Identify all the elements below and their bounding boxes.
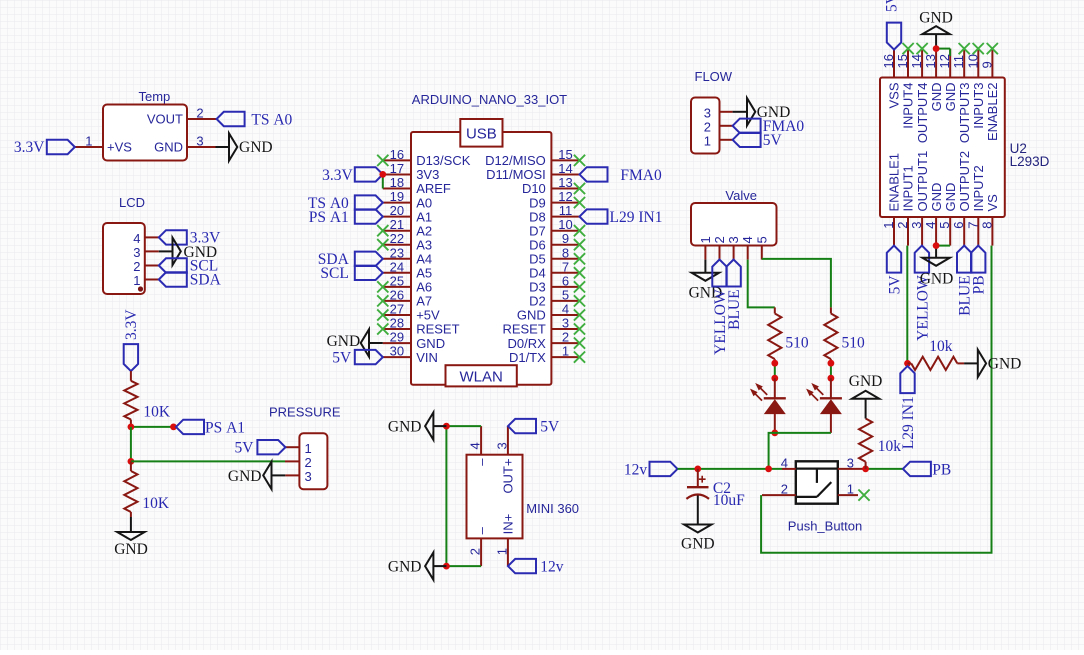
svg-text:GND: GND [943,83,958,112]
svg-text:1: 1 [881,222,896,229]
wire U2 GND bottom [936,245,950,247]
svg-text:D7: D7 [529,223,546,238]
svg-text:GND: GND [920,271,954,288]
svg-text:INPUT1: INPUT1 [901,165,916,211]
svg-text:RESET: RESET [416,322,459,337]
wire Valve pin 4 to resistor [748,260,775,308]
no-connect pin 9 [574,239,585,250]
svg-text:L29 IN1: L29 IN1 [610,209,663,226]
svg-text:VS: VS [985,194,1000,212]
svg-text:12v: 12v [540,559,564,576]
svg-text:12: 12 [558,189,572,204]
svg-text:PRESSURE: PRESSURE [269,404,341,419]
no-connect pin 27 [377,309,388,320]
resistor 510 (right) [824,307,865,363]
svg-text:PS A1: PS A1 [205,419,245,436]
svg-text:GND: GND [988,356,1022,373]
Valve pin 5 [754,236,769,259]
svg-text:12: 12 [937,54,952,68]
svg-text:GND: GND [388,559,422,576]
svg-text:23: 23 [390,245,404,260]
svg-text:3.3V: 3.3V [14,139,45,156]
FLOW pin 2 [704,120,733,135]
ARDUINO pin 20 A1 [383,203,432,224]
svg-text:D12/MISO: D12/MISO [485,153,546,168]
ARDUINO pin 26 A7 [383,287,432,308]
svg-text:3: 3 [726,236,741,243]
svg-text:7: 7 [965,222,980,229]
svg-text:1: 1 [133,273,140,288]
svg-text:D2: D2 [529,294,546,309]
svg-text:GND: GND [327,333,361,350]
svg-text:–: – [474,526,489,534]
label SDA (pin 23 A4) [318,251,383,268]
svg-text:WLAN: WLAN [460,368,503,385]
svg-text:3.3V: 3.3V [322,167,353,184]
junction (MINI360 in gnd) [443,563,450,570]
power flag 3.3V (divider top) [123,309,140,371]
svg-text:14: 14 [909,54,924,68]
svg-text:GND: GND [919,9,953,26]
svg-text:1: 1 [494,548,509,555]
connector Valve title [725,188,757,203]
ground GND (U2 pins 4/5) [920,246,954,288]
power flag 12v (MINI360 IN+) [508,559,564,576]
svg-text:OUTPUT2: OUTPUT2 [957,151,972,212]
svg-text:2: 2 [712,236,727,243]
ARDUINO pin 19 A0 [383,189,432,210]
svg-text:17: 17 [390,161,404,176]
ground GND (FLOW pin 3) [733,98,791,125]
junction (pin 17) [379,171,386,178]
U2 pin 1 ENABLE1 [881,153,902,246]
label YELLOW (U2 pin 3) [914,246,931,341]
U2 pin 13 GND [923,49,944,112]
svg-text:AREF: AREF [416,181,451,196]
ARDUINO pin 6 D3 [529,273,579,294]
svg-text:4: 4 [740,236,755,243]
wire PS A1 tap [131,426,174,428]
U2 pin 14 OUTPUT4 [909,49,930,144]
junction (LED return) [765,466,772,473]
no-connect pin 16 [377,155,388,166]
svg-text:8: 8 [562,245,569,260]
ground GND (U2 pins 13/12) [919,9,953,48]
wire Valve pin 5 to resistor [762,259,831,308]
svg-text:Valve: Valve [725,188,757,203]
svg-text:A0: A0 [416,195,432,210]
resistor 10k (pull-down) [859,419,901,469]
svg-text:GND: GND [929,83,944,112]
U2 pin 16 VSS [881,49,902,109]
resistor 510 (left) [768,307,809,363]
ARDUINO pin 3 RESET [502,316,579,337]
ARDUINO pin 14 D11/MOSI [486,161,579,182]
svg-text:10: 10 [965,54,980,68]
no-connect pin 6 [574,281,585,292]
svg-text:5: 5 [754,236,769,243]
svg-text:15: 15 [558,147,572,162]
ARDUINO pin 2 D0/RX [508,330,580,351]
svg-text:ARDUINO_NANO_33_IOT: ARDUINO_NANO_33_IOT [412,92,567,107]
Temp pin 1 +VS [75,134,132,155]
svg-text:GND: GND [388,419,422,436]
power flag 5V (pin 30 VIN) [332,349,383,366]
svg-text:D1/TX: D1/TX [509,350,546,365]
svg-text:1: 1 [704,134,711,149]
junction (R bottom 2) [828,360,835,367]
wire 12v bus [678,468,783,470]
svg-text:D13/SCK: D13/SCK [416,153,471,168]
svg-text:A6: A6 [416,280,432,295]
label PS A1 [176,419,245,436]
ARDUINO pin 21 A2 [383,217,432,238]
svg-text:GND: GND [228,468,262,485]
svg-text:GND: GND [849,373,883,390]
svg-text:RESET: RESET [502,322,545,337]
svg-text:TS A0: TS A0 [251,111,292,128]
svg-text:VSS: VSS [887,82,902,108]
svg-text:1: 1 [847,482,854,497]
svg-text:8: 8 [979,222,994,229]
no-connect pin 21 [377,225,388,236]
svg-text:4: 4 [133,231,140,246]
ARDUINO pin 4 GND [517,302,580,323]
wire to PRESSURE pin 2 [131,460,285,462]
no-connect pin 7 [574,267,585,278]
wire MINI360 gnd [446,426,481,566]
no-connect U2 top [903,43,914,54]
svg-text:BLUE: BLUE [726,289,743,329]
svg-text:SCL: SCL [320,265,348,282]
LCD pin 1 [133,273,159,288]
ground GND (L29 IN1 10k) [964,350,1021,377]
svg-text:14: 14 [558,161,572,176]
svg-text:D5: D5 [529,252,546,267]
resistor 10K (upper) [124,371,171,427]
U2 pin 9 ENABLE2 [979,49,1000,141]
IC ARDUINO_NANO_33_IOT title [412,92,567,107]
ARDUINO WLAN box [446,365,517,386]
ground GND (Temp pin 3) [216,133,273,160]
no-connect pin 22 [377,239,388,250]
no-connect pin 4 [574,309,585,320]
ARDUINO pin 27 +5V [383,302,440,323]
U2 pin 10 INPUT3 [965,49,986,129]
FLOW pin 1 [704,134,733,149]
power flag 5V (U2 pin 16) [884,0,902,50]
no-connect pin 26 [377,295,388,306]
ground GND (C2) [681,496,715,553]
svg-text:1: 1 [85,134,92,149]
svg-text:2: 2 [133,259,140,274]
ground GND (pull-down) [849,373,883,419]
no-connect Push_Button pin 1 [858,490,869,501]
svg-text:A2: A2 [416,223,432,238]
svg-text:21: 21 [390,217,404,232]
label SCL (pin 24 A5) [320,265,382,282]
junction (U2 pin 13) [933,45,940,52]
svg-text:2: 2 [562,330,569,345]
MINI360 pin 2 [468,526,489,566]
svg-text:5V: 5V [540,419,560,436]
wire resistor to LED 1 [774,363,776,378]
power flag 5V (MINI360 OUT+) [508,419,560,436]
Valve pin 1 [698,236,713,259]
label SCL (LCD pin 2) [159,258,218,275]
svg-text:6: 6 [951,222,966,229]
label PB [903,461,951,478]
ARDUINO pin 23 A4 [383,245,432,266]
LED D2 [807,378,842,433]
junction (pull-down tap) [862,466,869,473]
svg-text:GND: GND [517,308,546,323]
svg-text:5V: 5V [235,440,255,457]
connector LCD title [119,195,145,210]
no-connect pin 3 [574,323,585,334]
svg-text:20: 20 [390,203,404,218]
svg-text:A1: A1 [416,209,432,224]
no-connect U2 top [987,43,998,54]
junction (divider tap) [127,424,134,431]
ground GND (MINI360 in) [388,552,446,579]
svg-text:16: 16 [390,147,404,162]
svg-text:FMA0: FMA0 [620,167,662,184]
svg-text:2: 2 [305,455,312,470]
svg-text:D6: D6 [529,237,546,252]
no-connect pin 13 [574,183,585,194]
svg-text:GND: GND [416,336,445,351]
junction (LED1 bottom) [771,430,778,437]
Push_Button title [788,518,862,533]
svg-text:VIN: VIN [416,350,438,365]
svg-text:INPUT3: INPUT3 [971,83,986,129]
ARDUINO pin 29 GND [383,330,445,351]
svg-text:510: 510 [842,334,866,351]
svg-text:18: 18 [390,175,404,190]
svg-text:15: 15 [895,54,910,68]
no-connect pin 12 [574,197,585,208]
svg-text:2: 2 [704,120,711,135]
U2 pin 2 INPUT1 [895,165,916,245]
svg-text:5: 5 [562,287,569,302]
ground GND (LCD pin 3) [159,238,217,265]
connector Temp body [103,105,187,161]
Valve pin 4 [740,236,755,259]
svg-text:+5V: +5V [416,308,440,323]
label L29 IN1 (flag) [900,366,917,449]
wire resistor to LED 2 [830,363,832,378]
module MINI 360 title [526,501,579,516]
ground GND (MINI360 out) [388,412,446,439]
svg-text:ENABLE2: ENABLE2 [985,83,1000,142]
label SDA (LCD pin 1) [159,272,222,289]
wire U2 GND top [936,49,950,56]
svg-text:D3: D3 [529,280,546,295]
no-connect pin 25 [377,281,388,292]
ARDUINO pin 11 D8 [529,203,579,224]
svg-text:30: 30 [390,344,404,359]
svg-text:4: 4 [562,302,569,317]
ARDUINO pin 7 D4 [529,259,579,280]
svg-text:OUTPUT3: OUTPUT3 [957,83,972,144]
svg-text:5V: 5V [884,0,901,12]
svg-text:1: 1 [562,344,569,359]
svg-text:VOUT: VOUT [147,112,183,127]
junction (LED top 2) [828,375,835,382]
svg-text:SDA: SDA [190,272,222,289]
svg-text:2: 2 [895,222,910,229]
U2 pin 11 OUTPUT3 [951,49,972,144]
label PB (U2 pin 7) [971,246,988,295]
no-connect U2 top [973,43,984,54]
svg-text:510: 510 [785,334,809,351]
ARDUINO pin 10 D7 [529,217,579,238]
ARDUINO pin 18 AREF [383,175,451,196]
svg-text:1: 1 [305,441,312,456]
svg-text:LCD: LCD [119,195,145,210]
U2 pin 5 GND [937,183,958,246]
ARDUINO pin 8 D5 [529,245,579,266]
label 3.3V (LCD pin 4) [159,230,221,247]
svg-text:12v: 12v [624,461,648,478]
wire 3V3 to AREF [382,174,384,188]
connector LCD body [103,223,145,294]
connector Temp title [139,89,171,104]
U2 pin 7 INPUT2 [965,165,986,245]
U2 pin 6 OUTPUT2 [951,151,972,246]
capacitor C2 10uF [686,469,745,509]
wire PB net [863,468,903,470]
U2 pin 15 INPUT4 [895,49,916,129]
svg-text:9: 9 [562,231,569,246]
svg-text:PB: PB [932,461,951,478]
svg-text:27: 27 [390,302,404,317]
svg-text:A7: A7 [416,294,432,309]
svg-text:19: 19 [390,189,404,204]
MINI360 pin 3 [494,426,515,493]
svg-text:2: 2 [468,548,483,555]
IC U2 reference [1010,141,1050,169]
svg-text:10k: 10k [929,338,953,355]
svg-text:6: 6 [562,273,569,288]
svg-text:PS A1: PS A1 [309,209,349,226]
LCD pin 4 [133,231,159,246]
svg-text:OUT+: OUT+ [501,459,516,494]
power flag 5V (FLOW pin 1) [733,132,783,149]
power flag 3.3V (Temp +VS) [14,139,75,156]
svg-text:22: 22 [390,231,404,246]
power flag 5V (PRESSURE pin 1) [235,440,286,457]
svg-text:28: 28 [390,316,404,331]
connector FLOW title [695,69,733,84]
Push_Button pin 3 [838,455,863,470]
ground GND (PRESSURE pin 3) [228,462,285,489]
no-connect pin 5 [574,295,585,306]
svg-text:9: 9 [979,61,994,68]
svg-text:3.3V: 3.3V [123,309,140,340]
ARDUINO pin 24 A5 [383,259,432,280]
LCD anchor dot [138,286,143,291]
junction (PS A1 label) [170,424,177,431]
ARDUINO pin 9 D6 [529,231,579,252]
ARDUINO pin 16 D13/SCK [383,147,471,168]
svg-text:GND: GND [943,183,958,212]
Temp pin 3 GND [154,134,215,155]
junction (C2 tap) [694,466,701,473]
svg-text:D9: D9 [529,195,546,210]
no-connect pin 8 [574,253,585,264]
connector FLOW body [691,98,720,154]
MINI360 pin 1 [494,514,515,566]
svg-text:3: 3 [704,106,711,121]
label L29 IN1 (pin 11 D8) [580,209,663,226]
svg-text:OUTPUT4: OUTPUT4 [915,83,930,144]
U2 pin 12 GND [937,49,958,112]
IC U2 L293D body [880,78,1005,218]
svg-text:IN+: IN+ [501,514,516,535]
ARDUINO pin 28 RESET [383,316,460,337]
U2 pin 4 GND [923,183,944,246]
svg-text:ENABLE1: ENABLE1 [887,153,902,212]
svg-text:24: 24 [390,259,404,274]
svg-text:16: 16 [881,54,896,68]
power flag 12v [624,461,678,478]
Valve pin 2 [712,236,727,259]
wire VS net [761,246,991,553]
svg-text:A5: A5 [416,266,432,281]
switch Push_Button body [796,461,838,503]
svg-text:3: 3 [847,455,854,470]
svg-text:MINI 360: MINI 360 [526,501,579,516]
svg-text:11: 11 [559,203,573,218]
ARDUINO pin 1 D1/TX [509,344,580,365]
label BLUE (Valve pin 3) [726,260,743,330]
svg-text:D8: D8 [529,209,546,224]
svg-text:D0/RX: D0/RX [508,336,547,351]
svg-text:2: 2 [196,106,203,121]
junction (MINI360 out gnd) [443,423,450,430]
junction (divider mid) [127,458,134,465]
power flag 5V (U2 pin 1) [886,246,903,295]
U2 pin 8 VS [979,194,1000,246]
no-connect pin 10 [574,225,585,236]
label BLUE (U2 pin 6) [957,246,974,316]
PRESSURE pin 2 [285,455,312,470]
svg-text:3: 3 [133,245,140,260]
svg-text:11: 11 [951,55,966,69]
svg-text:5V: 5V [886,275,903,295]
svg-text:10k: 10k [878,438,902,455]
svg-text:1: 1 [698,236,713,243]
svg-text:+VS: +VS [107,140,132,155]
junction (U2 pin 4) [933,242,940,249]
svg-text:4: 4 [468,442,483,449]
ARDUINO pin 22 A3 [383,231,432,252]
svg-text:10K: 10K [143,403,171,420]
Push_Button pin 1 [838,482,858,497]
no-connect pin 1 [574,352,585,363]
svg-text:GND: GND [114,541,148,558]
svg-text:5V: 5V [332,349,352,366]
PRESSURE pin 3 [285,469,311,484]
svg-text:D11/MOSI: D11/MOSI [486,167,546,182]
svg-text:5V: 5V [763,132,783,149]
ARDUINO pin 5 D2 [529,287,579,308]
connector Valve body [691,203,777,246]
svg-text:10: 10 [558,217,572,232]
svg-text:GND: GND [154,140,183,155]
